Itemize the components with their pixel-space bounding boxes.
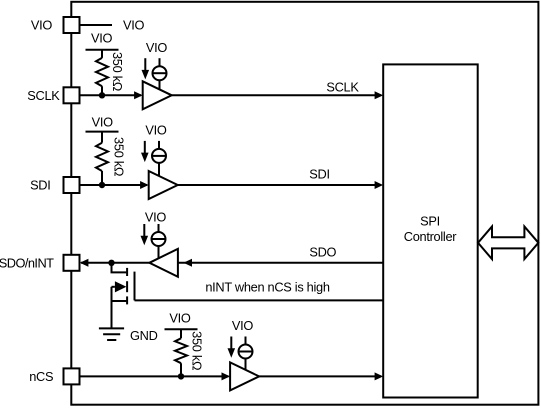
SPI Controller U1 xyxy=(383,64,478,397)
svg-text:nINT when nCS is high: nINT when nCS is high xyxy=(205,280,330,295)
wire SCLK buffer to SPI controller xyxy=(172,94,381,96)
power VIO rail (R_SDI) xyxy=(86,115,119,132)
power VIO rail (R_SCLK) xyxy=(86,30,119,49)
wire nCS buffer to SPI controller xyxy=(259,375,381,377)
junction nCS/resistor xyxy=(178,373,184,379)
buffer U_SCLK xyxy=(143,81,172,109)
wire SDI buffer to SPI controller xyxy=(178,184,381,186)
svg-text:VIO: VIO xyxy=(91,30,112,45)
svg-text:VIO: VIO xyxy=(92,115,113,130)
arrowhead into SDO/nINT pin xyxy=(80,259,89,267)
svg-text:VIO: VIO xyxy=(169,310,190,325)
pin nCS xyxy=(29,368,79,384)
wire SPI to SDO buffer xyxy=(178,262,383,264)
ground xyxy=(99,328,124,340)
wire SCLK pin to buffer xyxy=(80,94,142,96)
arrowhead SDI into SPI xyxy=(375,181,384,189)
buffer U_SDO (points left) xyxy=(149,249,178,277)
transistor Q1 open-drain nINT driver xyxy=(112,263,135,328)
pin SCLK xyxy=(27,87,79,103)
junction SCLK/resistor xyxy=(99,92,105,98)
wire SDI pin to buffer xyxy=(80,184,148,186)
buffer U_nCS xyxy=(230,362,259,390)
resistor R_SDI 350 k&#937; pull-up xyxy=(96,132,108,185)
svg-text:SCLK: SCLK xyxy=(326,80,359,95)
resistor R_SCLK 350 k&#937; pull-up xyxy=(96,50,108,96)
svg-text:350 kΩ: 350 kΩ xyxy=(111,137,126,177)
buffer U_SDI xyxy=(149,171,178,199)
svg-text:GND: GND xyxy=(130,328,158,343)
svg-text:SDO: SDO xyxy=(309,244,336,259)
current source I_SDI xyxy=(141,141,166,176)
svg-text:SPI: SPI xyxy=(420,214,440,229)
svg-text:nCS: nCS xyxy=(29,369,53,384)
pin VIO xyxy=(31,17,80,33)
svg-text:Controller: Controller xyxy=(404,229,458,244)
wire nINT gate to SPI controller xyxy=(135,299,384,301)
pin SDO/nINT xyxy=(0,255,80,271)
arrowhead into SCLK buffer xyxy=(134,91,143,99)
svg-text:SDI: SDI xyxy=(309,167,329,182)
svg-text:SDI: SDI xyxy=(30,178,50,193)
bidirectional bus arrow xyxy=(478,227,538,260)
arrowhead into SDI buffer xyxy=(140,181,149,189)
wire SDO buffer to pin xyxy=(81,262,149,264)
current source I_SDO xyxy=(141,224,166,258)
pin SDI xyxy=(30,177,79,193)
wire nCS pin to buffer xyxy=(80,375,229,377)
svg-text:SDO/nINT: SDO/nINT xyxy=(0,255,54,270)
svg-text:SCLK: SCLK xyxy=(27,88,60,103)
svg-text:VIO: VIO xyxy=(31,18,52,33)
svg-text:350 kΩ: 350 kΩ xyxy=(190,331,205,371)
svg-text:VIO: VIO xyxy=(146,40,167,55)
current source I_SCLK xyxy=(142,58,167,89)
junction SDO/transistor drain xyxy=(108,260,114,266)
svg-text:VIO: VIO xyxy=(232,318,253,333)
junction SDI/resistor xyxy=(99,182,105,188)
arrowhead nCS into SPI xyxy=(375,372,384,380)
arrowhead into nCS buffer xyxy=(222,372,231,380)
svg-text:VIO: VIO xyxy=(145,123,166,138)
arrowhead into SDO buffer xyxy=(183,259,192,267)
svg-text:VIO: VIO xyxy=(123,17,144,32)
svg-text:VIO: VIO xyxy=(145,210,166,225)
resistor R_nCS 350 k&#937; pull-up xyxy=(175,329,187,376)
arrowhead SCLK into SPI xyxy=(375,91,384,99)
wire VIO pin to VIO net xyxy=(80,24,113,26)
power VIO rail (R_nCS) xyxy=(165,310,198,329)
current source I_nCS xyxy=(228,337,253,371)
svg-text:350 kΩ: 350 kΩ xyxy=(110,52,125,92)
